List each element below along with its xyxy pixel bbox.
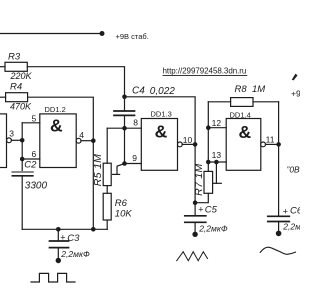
wire DD1.1 pin3 output: [11, 139, 22, 141]
wire R7 top: [207, 162, 209, 171]
svg-text:+: +: [60, 233, 65, 243]
pin 3 inverter bubble DD1.1: [7, 138, 12, 143]
pin 11 inverter bubble DD1.4: [261, 142, 266, 147]
wire pin 6: [22, 158, 40, 160]
wire R3 right to C4 top: [27, 67, 124, 111]
wire R7 bottom link: [195, 193, 208, 202]
wire C2 bottom to rail: [21, 177, 23, 230]
node C3 bottom terminal dot: [56, 258, 61, 263]
node bottom rail junction: [91, 227, 96, 232]
wire R6 bottom to rail: [106, 220, 108, 229]
wire +9V supply rail: [0, 33, 102, 35]
resistor R6: [103, 193, 111, 220]
wire C4 bottom vertical to pin9 net: [124, 115, 126, 163]
op-amp DD1.2 gate box: [40, 114, 76, 168]
svg-text:12: 12: [212, 118, 222, 128]
wire R3 left: [0, 66, 5, 68]
svg-text:C4: C4: [132, 86, 145, 97]
resistor R3: [5, 62, 27, 71]
wire R5 wiper tap: [117, 164, 125, 175]
svg-text:C3: C3: [67, 233, 80, 244]
node R7 wiper junction: [214, 160, 219, 165]
wire pin 9: [125, 163, 142, 165]
wire R8 left: [208, 101, 230, 103]
node C6 bottom terminal dot: [276, 231, 282, 237]
wire R4 left: [0, 96, 6, 98]
svg-text:R6: R6: [115, 198, 128, 209]
svg-text:3300: 3300: [25, 180, 48, 191]
svg-text:10: 10: [183, 135, 193, 145]
svg-text:2,2мкФ: 2,2мкФ: [198, 223, 228, 233]
svg-text:3: 3: [9, 128, 14, 138]
capacitor C2 plates: [12, 171, 32, 173]
node pin10 junction: [193, 142, 198, 147]
resistor R5 trimmer body: [103, 163, 111, 185]
arrow mark right edge: [292, 74, 298, 81]
wire DD1.2 pin4 output: [81, 140, 93, 142]
svg-text:&: &: [50, 115, 63, 135]
svg-text:+9В стаб.: +9В стаб.: [116, 32, 149, 41]
wire R4 right down to bottom rail: [28, 97, 94, 229]
capacitor C6 plates: [268, 215, 290, 217]
svg-text:&: &: [238, 122, 251, 142]
node R7 bottom junction: [193, 200, 198, 205]
svg-text:8: 8: [133, 118, 138, 128]
node pin13 junction: [206, 160, 211, 165]
node pin6 junction: [20, 157, 25, 162]
capacitor C3 plates: [50, 240, 69, 242]
wire C6 bottom: [278, 222, 280, 234]
pin 4 inverter bubble DD1.2: [76, 138, 81, 143]
svg-text:C6: C6: [290, 206, 300, 217]
op-amp DD1.3 gate box: [141, 119, 177, 171]
svg-text:2,2мкФ: 2,2мкФ: [60, 249, 90, 259]
svg-text:0,022: 0,022: [150, 86, 175, 97]
wire pin 5: [22, 122, 40, 124]
svg-text:5: 5: [32, 113, 37, 123]
svg-text:6: 6: [32, 149, 37, 159]
wire R7 wiper crossbar: [213, 182, 221, 184]
wire node to DD1.3 output net: [125, 97, 196, 145]
svg-text:DD1.4: DD1.4: [230, 111, 251, 120]
node pin12 junction: [206, 125, 211, 130]
node DD1.2 output junction: [91, 138, 96, 143]
resistor R7 trimmer body: [204, 171, 213, 193]
wire right vertical to C6: [278, 102, 280, 217]
svg-text:+: +: [283, 206, 288, 216]
svg-text:+: +: [198, 205, 203, 215]
wire R7 wiper tap: [215, 162, 217, 183]
svg-text:9: 9: [132, 153, 137, 163]
wire pin 8: [107, 127, 141, 129]
svg-text:11: 11: [266, 134, 275, 144]
wire R5 to R6 link: [106, 186, 108, 194]
svg-text:13: 13: [212, 150, 222, 160]
node R3/C4 junction: [122, 95, 127, 100]
wire R5 top vertical: [106, 128, 108, 163]
pin 10 inverter bubble DD1.3: [178, 142, 183, 147]
svg-text:470K: 470K: [10, 102, 32, 112]
svg-text:220K: 220K: [10, 71, 33, 81]
wire C5 bottom: [194, 222, 196, 234]
svg-text:R5 1M: R5 1M: [92, 154, 104, 186]
svg-text:R4: R4: [10, 82, 22, 93]
op-amp DD1.4 gate box: [226, 119, 261, 171]
wire pin 12: [208, 127, 226, 129]
square wave symbol: [31, 273, 75, 282]
node C5 bottom terminal dot: [192, 232, 197, 237]
svg-text:1M: 1M: [252, 84, 265, 95]
node C3 top junction: [56, 227, 61, 232]
wire C3 top: [57, 229, 59, 241]
svg-text:DD1.2: DD1.2: [45, 105, 66, 114]
wire DD1.3 pin10 output: [182, 143, 195, 145]
wire pin 13: [208, 161, 226, 163]
node C4/pin8 junction: [122, 126, 127, 131]
svg-text:10K: 10K: [115, 209, 133, 220]
wire DD1.4 pin11 output: [266, 143, 279, 145]
svg-text:R3: R3: [8, 51, 21, 62]
triangle wave symbol: [177, 252, 208, 261]
svg-text:+9: +9: [291, 88, 300, 98]
capacitor C4 plates: [114, 110, 135, 112]
wire R5 wiper crossbar: [113, 173, 120, 175]
svg-text:R8: R8: [235, 84, 248, 95]
svg-text:2,2мкФ: 2,2мкФ: [282, 221, 300, 231]
wire input vertical C2 net: [21, 123, 23, 172]
wire R8 right: [253, 101, 279, 103]
svg-text:”0В: ”0В: [287, 165, 301, 175]
svg-text:http://299792458.3dn.ru: http://299792458.3dn.ru: [163, 67, 247, 76]
wire R8 net vertical: [207, 102, 209, 162]
wire pin10 net down to C5: [194, 144, 196, 215]
sine wave symbol: [260, 247, 295, 254]
wire C3 bottom: [57, 248, 59, 261]
svg-text:DD1.3: DD1.3: [151, 110, 172, 119]
svg-text:C5: C5: [205, 204, 218, 215]
capacitor C5 plates: [185, 215, 206, 217]
resistor R4: [6, 93, 28, 102]
node pin11 junction: [276, 142, 281, 147]
op-amp DD1.1 gate box (partial at left edge): [0, 114, 7, 168]
node pin3/pin5 junction: [20, 138, 25, 143]
svg-text:R7 1M: R7 1M: [193, 163, 205, 195]
node R5 wiper junction: [122, 161, 127, 166]
svg-text:C2: C2: [24, 159, 37, 170]
URL underline: [163, 74, 247, 76]
node +9V terminal dot: [100, 31, 105, 36]
svg-text:&: &: [155, 122, 168, 142]
wire bottom rail: [22, 228, 107, 230]
resistor R8: [231, 98, 253, 107]
svg-text:4: 4: [79, 130, 84, 140]
